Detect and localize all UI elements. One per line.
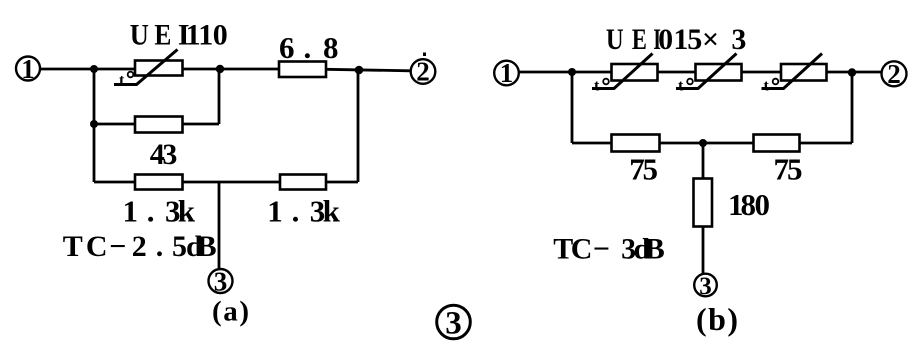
svg-text:(b): (b) [696,301,738,337]
svg-text:1: 1 [500,58,514,88]
svg-text:(a): (a) [212,296,249,328]
svg-text:3: 3 [445,306,462,342]
svg-text:t: t [678,78,684,95]
svg-text:1: 1 [21,54,35,84]
svg-text:3: 3 [214,267,228,297]
svg-text:180: 180 [728,187,770,222]
svg-text:015×3: 015×3 [658,23,746,56]
svg-text:U: U [606,23,624,56]
svg-text:75: 75 [629,152,658,187]
svg-text:t: t [764,78,770,95]
svg-text:2: 2 [416,57,430,87]
svg-text:3: 3 [699,273,712,300]
svg-text:U: U [130,19,149,52]
svg-text:I110: I110 [178,19,228,52]
svg-text:E: E [632,23,647,56]
svg-text:E: E [154,19,171,52]
svg-text:6.8: 6.8 [279,30,339,65]
svg-text:75: 75 [774,152,803,187]
svg-text:2: 2 [887,59,901,89]
svg-text:43: 43 [150,138,178,171]
svg-text:TC−2.5dB: TC−2.5dB [63,230,217,263]
svg-text:t: t [594,78,600,95]
svg-text:TC−3dB: TC−3dB [553,233,665,266]
svg-text:t: t [119,72,125,89]
